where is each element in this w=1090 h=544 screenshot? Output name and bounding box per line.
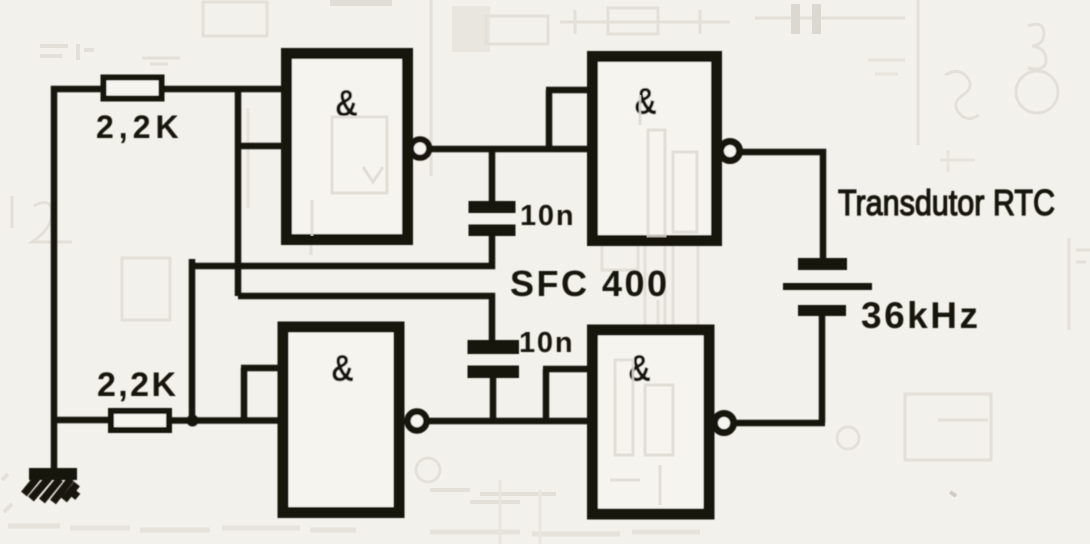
wire: vertical branch from R1 node down xyxy=(235,86,242,296)
svg-text:&: & xyxy=(634,81,657,122)
label SFC 400 xyxy=(510,263,670,304)
label U1d & xyxy=(628,348,651,389)
NAND gate U1c xyxy=(283,327,399,513)
wire: rail top corner to R1 xyxy=(51,86,101,93)
junction node at R2 output xyxy=(187,415,199,427)
inverter bubble U1b output xyxy=(721,142,740,161)
wire: U1a output to U1b input xyxy=(431,146,590,153)
transducer X1 bottom plate xyxy=(798,305,846,316)
inverter bubble U1c output xyxy=(408,412,427,431)
wire: U1b output to transducer top xyxy=(742,152,823,258)
capacitor C2 bottom plate xyxy=(468,366,520,379)
svg-text:Transdutor RTC: Transdutor RTC xyxy=(838,182,1055,223)
label R2 value 2,2K xyxy=(97,366,178,404)
wire: feedback wire A to C1 bottom xyxy=(192,233,492,266)
transducer X1 top plate xyxy=(798,258,847,270)
wire: U1c input 1 stub xyxy=(241,365,284,372)
wire: U1d input tie vertical xyxy=(543,369,550,421)
NAND gate U1a xyxy=(287,54,408,240)
svg-text:10n: 10n xyxy=(520,200,575,232)
wire: C1 top tap from U1a output wire xyxy=(489,150,496,204)
svg-text:&: & xyxy=(331,348,354,389)
label U1b & xyxy=(634,81,657,122)
wire: U1c input tie vertical xyxy=(241,368,248,421)
wire: transducer stem to U1d output wire xyxy=(819,312,826,423)
label C2 value 10n xyxy=(519,327,574,359)
capacitor C1 bottom plate xyxy=(469,225,516,237)
svg-text:10n: 10n xyxy=(519,327,574,359)
wire: U1b input 1 stub xyxy=(546,87,590,94)
inverter bubble U1d output xyxy=(715,414,734,433)
wire: branch to gate U1a input 2 xyxy=(235,143,287,150)
label U1c & xyxy=(331,348,354,389)
wire: U1c output to U1d input xyxy=(427,418,592,425)
ground symbol xyxy=(24,468,78,502)
capacitor C1 top plate xyxy=(469,201,516,213)
svg-text:36kHz: 36kHz xyxy=(861,295,980,336)
svg-text:SFC 400: SFC 400 xyxy=(510,263,670,304)
svg-text:&: & xyxy=(628,348,651,389)
svg-text:2,2K: 2,2K xyxy=(97,366,178,404)
label R1 value 2,2K xyxy=(96,109,184,145)
wire: U1d input 1 stub xyxy=(543,366,590,373)
inverter bubble U1a output xyxy=(411,139,429,157)
wire: feedback wire B from U1a inputs to C2 top xyxy=(238,296,492,343)
transducer X1 middle plate xyxy=(783,283,872,290)
wire: R2 to gate U1c input 2 xyxy=(169,417,284,424)
wire: rail to R2 xyxy=(51,417,109,424)
wire: U1d output to transducer xyxy=(736,420,825,427)
label U1a & xyxy=(335,83,358,124)
wire: C2 bottom to U1c output wire xyxy=(490,376,497,421)
resistor R1 xyxy=(104,78,162,99)
wire: left ground rail vertical xyxy=(51,86,58,470)
wire: vertical from junction up to feedback wire A xyxy=(189,259,196,421)
resistor R2 xyxy=(111,411,169,430)
NAND gate U1d xyxy=(593,330,710,514)
NAND gate U1b xyxy=(593,57,717,241)
wire: R1 to gate U1a input 1 xyxy=(164,86,287,93)
wire: U1b input tie vertical xyxy=(546,90,553,149)
label C1 value 10n xyxy=(520,200,575,232)
svg-text:2,2K: 2,2K xyxy=(96,109,184,145)
capacitor C2 top plate xyxy=(468,340,520,354)
label 36kHz xyxy=(861,295,980,336)
label Transdutor RTC xyxy=(838,182,1055,223)
